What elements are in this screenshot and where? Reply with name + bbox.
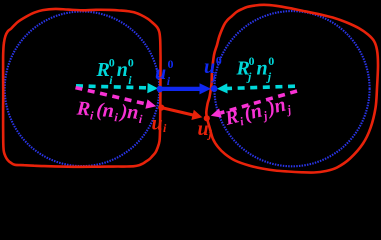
node u_j^0 — [211, 85, 218, 92]
label R_i(n_i)n_i — [75, 97, 144, 126]
svg-text:n: n — [102, 99, 115, 122]
label R_j^0 n_j^0 — [236, 54, 275, 84]
vector R_j^0 n_j^0 (cyan dashed arrow, particle j) — [217, 83, 295, 93]
node u_j — [204, 115, 210, 121]
svg-text:n: n — [117, 59, 128, 81]
label R_i(n_j)n_j — [222, 92, 293, 132]
svg-text:0: 0 — [109, 56, 115, 70]
svg-text:0: 0 — [168, 57, 174, 71]
node u_i — [158, 105, 164, 111]
label u_j^0 — [204, 53, 222, 83]
branch vector u_i^0 -> u_j^0 (blue arrow) — [160, 83, 211, 94]
svg-text:0: 0 — [128, 56, 134, 70]
svg-text:u: u — [198, 118, 209, 140]
vector R_i(n_i)n_i (magenta dashed arrow, particle i) — [76, 88, 157, 109]
vector R_j(n_j)n_j (magenta dashed arrow, particle j) — [211, 91, 297, 118]
label u_i^0 — [155, 57, 174, 88]
branch vector u_i -> u_j (red arrow) — [162, 108, 203, 120]
label u_j — [198, 118, 213, 141]
particle i initial boundary (blue dotted circle) — [5, 12, 160, 167]
svg-text:u: u — [155, 62, 166, 84]
particle j initial boundary (blue dotted circle) — [214, 11, 369, 166]
svg-text:0: 0 — [268, 54, 274, 68]
node u_i^0 — [157, 86, 164, 93]
svg-text:u: u — [152, 113, 163, 135]
particle i deformed boundary (red superellipse) — [3, 9, 160, 167]
svg-text:R: R — [75, 97, 91, 120]
svg-text:n: n — [257, 58, 268, 80]
label u_i — [152, 113, 168, 136]
svg-text:R: R — [96, 59, 110, 81]
label R_i^0 n_i^0 — [96, 56, 134, 88]
vector R_i^0 n_i^0 (cyan dashed arrow, particle i) — [76, 83, 158, 93]
svg-text:n: n — [127, 101, 140, 124]
svg-text:0: 0 — [249, 54, 255, 68]
svg-text:0: 0 — [216, 53, 222, 67]
particle j deformed boundary (red blob) — [206, 5, 378, 173]
